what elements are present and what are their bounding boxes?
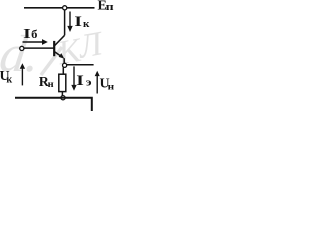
svg-text:п: п [106, 2, 114, 13]
wire emitter vertical [63, 58, 65, 63]
wire bottom rail with corner down [15, 98, 92, 111]
emitter arrowhead [59, 53, 65, 59]
current arrow Ib [23, 39, 48, 45]
svg-text:н: н [108, 82, 115, 92]
current arrow Ie [71, 66, 76, 90]
wire emitter to right (output) [67, 64, 94, 66]
wire top rail to Ep [24, 7, 95, 9]
transistor VT base bar [53, 41, 55, 56]
voltage arrow Uk [20, 63, 25, 85]
wire collector diagonal [55, 35, 65, 45]
svg-text:к: к [83, 19, 90, 30]
transistor emitter diagonal [55, 52, 63, 58]
svg-text:I: I [74, 14, 82, 30]
voltage arrow Un [95, 71, 100, 94]
svg-text:э: э [86, 77, 92, 88]
wire resistor to bottom node [61, 92, 63, 96]
wire base [24, 47, 53, 49]
node emitter [63, 63, 67, 67]
input terminal circle [20, 46, 24, 50]
svg-text:I: I [76, 73, 84, 89]
svg-text:к: к [6, 75, 12, 86]
svg-text:б: б [31, 27, 37, 41]
wire node to resistor [62, 67, 64, 74]
current arrow Ik [67, 12, 72, 33]
resistor Rn body [59, 74, 66, 91]
svg-text:I: I [23, 27, 31, 42]
node top (collector junction) [63, 6, 67, 10]
svg-text:н: н [48, 79, 54, 89]
node bottom [61, 96, 65, 100]
wire collector vertical [64, 10, 66, 35]
watermark swash stroke [41, 47, 62, 75]
